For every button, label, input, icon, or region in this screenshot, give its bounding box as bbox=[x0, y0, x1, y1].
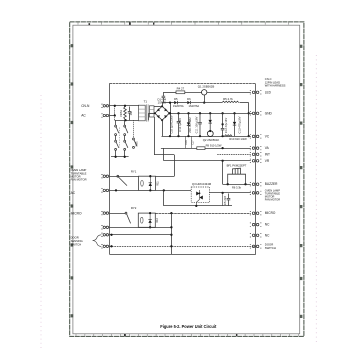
wire switch B to bus bbox=[124, 150, 126, 157]
transformer T1 core bbox=[146, 104, 148, 121]
wire C15 branch bbox=[170, 103, 172, 137]
connector pin CN-N pin 1 bbox=[101, 104, 108, 107]
node junction SE a bbox=[170, 226, 172, 228]
svg-text:C17: C17 bbox=[191, 140, 194, 145]
node junction AC bottom a bbox=[114, 114, 116, 116]
wire lamp feed drop bbox=[174, 155, 176, 176]
bridge rectifier D1-D4 1SR35 bbox=[155, 106, 169, 120]
wire AC line bottom stub bbox=[109, 115, 115, 117]
connector pin CN-C GND bbox=[250, 112, 261, 115]
wire LED row left bbox=[163, 92, 176, 94]
node junction GND g5 bbox=[221, 112, 223, 114]
node junction C15 top bbox=[169, 101, 171, 103]
wire VR rail bbox=[164, 160, 251, 162]
node junction VC v2 bbox=[177, 135, 179, 137]
wire C17 link bbox=[191, 136, 193, 148]
wire mech link dashed bbox=[119, 128, 121, 148]
node junction bus b bbox=[124, 156, 126, 158]
node bridge top vertex bbox=[161, 105, 163, 107]
svg-text:RY1: RY1 bbox=[131, 170, 137, 174]
svg-text:C5 223: C5 223 bbox=[223, 196, 227, 205]
transistor Q2 bbox=[207, 131, 213, 137]
brace door sensing bbox=[93, 235, 102, 247]
wire secondary top to bridge bbox=[154, 106, 162, 108]
wire GND rail bbox=[169, 113, 252, 115]
node junction AC return bbox=[124, 119, 126, 121]
node junction AC top b bbox=[124, 105, 126, 107]
capacitor C5 bbox=[227, 194, 231, 206]
node junction RY2 top bbox=[149, 212, 151, 214]
wire switch A to bus bbox=[115, 150, 117, 157]
node bridge left vertex bbox=[154, 112, 156, 114]
relay contact RY2 bbox=[125, 212, 131, 223]
node junction buzzer b bbox=[244, 183, 246, 185]
buzzer BF1 bbox=[228, 168, 246, 184]
wire micro row out bbox=[155, 213, 251, 215]
wire snubber row bbox=[164, 205, 232, 207]
node junction VA a bbox=[221, 147, 223, 149]
diode D9 bbox=[148, 213, 151, 227]
wire switch bottom bus bbox=[111, 156, 129, 158]
wire VA-VR link bbox=[163, 148, 165, 161]
node junction SE b bbox=[170, 234, 172, 236]
connector pin CN-C LED bbox=[250, 91, 261, 94]
node junction GND g2 bbox=[187, 112, 189, 114]
svg-text:SWITCH: SWITCH bbox=[265, 246, 276, 250]
connector pin CN-N pin 2 bbox=[101, 114, 108, 117]
svg-text:FAN MOTOR: FAN MOTOR bbox=[265, 197, 280, 201]
wire right connector spine CN-C bbox=[255, 84, 257, 254]
connector pin CN-C OVEN LAMP bbox=[250, 191, 261, 194]
node junction Q1 base bbox=[203, 101, 205, 103]
wire left connector spine CN bbox=[109, 84, 111, 254]
varistor VRS1 bbox=[124, 107, 127, 120]
wire C12 gnd link bbox=[222, 113, 224, 124]
zener diode D7 bbox=[209, 113, 212, 131]
relay RY2 coil box bbox=[138, 213, 155, 227]
wire AC neutral row bbox=[109, 190, 138, 192]
wire VC rail bbox=[162, 136, 251, 138]
node junction GND g1 bbox=[177, 112, 179, 114]
svg-text:SW1: SW1 bbox=[136, 141, 139, 147]
svg-text:C11 100μ16V: C11 100μ16V bbox=[194, 116, 198, 133]
triac Q3 bbox=[191, 187, 209, 202]
node junction VC v5 bbox=[221, 135, 223, 137]
svg-text:SENSING: SENSING bbox=[71, 239, 83, 243]
svg-text:NC: NC bbox=[265, 233, 270, 237]
capacitor C1 bbox=[128, 107, 132, 121]
svg-text:NC: NC bbox=[265, 223, 270, 227]
svg-text:FAN MOTOR: FAN MOTOR bbox=[71, 178, 87, 182]
svg-text:AC: AC bbox=[81, 114, 86, 118]
wire base row a bbox=[162, 102, 174, 104]
wire Q1 base drop bbox=[204, 95, 206, 103]
wire switch link B bbox=[124, 136, 126, 141]
node junction door1 bbox=[110, 234, 112, 236]
svg-text:R4 27: R4 27 bbox=[177, 87, 185, 91]
wire VA rail left bbox=[161, 148, 197, 150]
svg-text:MICRO: MICRO bbox=[71, 211, 82, 215]
switch door interlock A lower bbox=[115, 140, 119, 150]
wire switch drop A bbox=[115, 120, 117, 125]
svg-text:R6 3.3k: R6 3.3k bbox=[232, 185, 242, 189]
wire snubber drop bbox=[222, 193, 224, 206]
node junction AC top a bbox=[114, 105, 116, 107]
connector pin CN-C NC 2 bbox=[250, 234, 261, 237]
transformer T1 secondary bbox=[149, 106, 154, 117]
svg-text:AC: AC bbox=[71, 191, 76, 195]
svg-text:Q1 2SB562B: Q1 2SB562B bbox=[198, 84, 215, 88]
node junction GND g4 bbox=[209, 112, 211, 114]
node junction VC feed bbox=[248, 135, 250, 137]
wire buzzer rail bbox=[223, 184, 251, 186]
node junction RY2 bottom bbox=[149, 226, 151, 228]
switch door interlock B upper bbox=[124, 125, 128, 135]
svg-text:BUZZER: BUZZER bbox=[265, 182, 278, 186]
wire VA rail right bbox=[205, 148, 251, 150]
connector pin CN-C VA bbox=[250, 146, 261, 149]
wire door sense row 1 bbox=[109, 234, 171, 236]
connector pin CN-C VR bbox=[250, 159, 261, 162]
switch monitor switch C bbox=[133, 138, 137, 148]
node junction GND feed bbox=[248, 112, 250, 114]
node junction micro b bbox=[170, 212, 172, 214]
capacitor C11 bbox=[198, 113, 202, 136]
wire secondary left drop bbox=[148, 113, 150, 120]
wire lamp out row bbox=[209, 192, 251, 194]
node junction SE c bbox=[170, 245, 172, 247]
wire base row d bbox=[240, 102, 249, 104]
transformer T1 primary bbox=[138, 105, 145, 121]
svg-text:MICRO: MICRO bbox=[265, 211, 276, 215]
wire bridge bottom drop bbox=[162, 120, 164, 136]
wire LED row right bbox=[207, 92, 251, 94]
connector pin micro pin bbox=[101, 211, 108, 214]
node junction buzzer a bbox=[227, 183, 229, 185]
wire micro row in bbox=[109, 213, 125, 215]
wire base row c bbox=[191, 102, 222, 104]
node junction RY1 top bbox=[149, 175, 151, 177]
transistor Q1 bbox=[202, 90, 207, 95]
wire AC neutral row 2 bbox=[156, 190, 192, 192]
wire micro return row bbox=[109, 227, 171, 229]
connector pin micro return pin bbox=[101, 226, 108, 229]
connector pin door sensing pin 1 bbox=[101, 233, 108, 236]
svg-text:R10 910 1/2W: R10 910 1/2W bbox=[229, 137, 247, 141]
connector pin CN-C NC 1 bbox=[250, 223, 261, 226]
svg-text:1S2076A: 1S2076A bbox=[188, 104, 199, 108]
connector pin oven lamp pin bbox=[101, 175, 108, 178]
node junction GND g3 bbox=[199, 112, 201, 114]
svg-text:VRS1: VRS1 bbox=[119, 109, 123, 117]
svg-text:ZD1 HZ-6B2: ZD1 HZ-6B2 bbox=[188, 117, 192, 133]
svg-text:D6: D6 bbox=[187, 97, 191, 101]
svg-text:C13 470μ16V: C13 470μ16V bbox=[238, 116, 242, 133]
resistor R5 bbox=[222, 101, 239, 103]
zener diode ZD1 bbox=[187, 113, 190, 136]
capacitor C7 bbox=[162, 92, 166, 102]
svg-text:R5 4.7k: R5 4.7k bbox=[223, 97, 233, 101]
wire triac drop bbox=[163, 190, 165, 206]
relay contact RY1 bbox=[117, 175, 127, 185]
wire switch link A bbox=[115, 136, 117, 141]
resistor R9 bbox=[197, 147, 205, 150]
svg-text:C1: C1 bbox=[129, 111, 133, 115]
node junction neutral b bbox=[163, 189, 165, 191]
wire top rail bbox=[109, 83, 256, 85]
wire secondary mid to bridge left bbox=[149, 113, 155, 115]
wire lamp feed horiz bbox=[154, 154, 174, 156]
svg-text:Q2 2SD561K: Q2 2SD561K bbox=[203, 138, 220, 142]
svg-text:C12 47μ16V: C12 47μ16V bbox=[224, 118, 228, 134]
node junction D7 out bbox=[209, 130, 211, 132]
node junction VR a bbox=[221, 160, 223, 162]
wire bottom rail bbox=[109, 254, 256, 256]
node junction Q3 anode bbox=[199, 192, 201, 194]
svg-text:BF1 PKM22EPT: BF1 PKM22EPT bbox=[227, 164, 247, 168]
svg-text:LED: LED bbox=[265, 90, 272, 94]
connector pin CN-C VC bbox=[250, 135, 261, 138]
resistor R10 bbox=[225, 135, 233, 136]
wire switch drop C bbox=[133, 120, 135, 138]
connector pin door sensing pin 2 bbox=[101, 245, 108, 248]
node junction VC v1 bbox=[169, 135, 171, 137]
node junction RY1 bottom bbox=[149, 189, 151, 191]
connector pin CN-C MICRO bbox=[250, 212, 261, 215]
wire AC line top bbox=[109, 105, 139, 107]
connector pin CN-C BUZZER bbox=[250, 183, 261, 186]
node junction VC v3 bbox=[187, 135, 189, 137]
wire INT line bbox=[217, 154, 251, 156]
svg-text:R11: R11 bbox=[156, 181, 159, 186]
wire VR to buzzer drop bbox=[222, 161, 224, 184]
wire SE vertical bus bbox=[171, 213, 173, 254]
wire door sense row 2 bbox=[109, 246, 256, 248]
svg-text:D5: D5 bbox=[174, 97, 178, 101]
svg-text:C15 1μ AC250V: C15 1μ AC250V bbox=[171, 115, 174, 133]
svg-text:R9 910 1/2W: R9 910 1/2W bbox=[206, 143, 222, 147]
capacitor C10 bbox=[177, 113, 181, 136]
svg-text:WITH HARNESS: WITH HARNESS bbox=[265, 83, 286, 87]
diode D5 bbox=[174, 101, 177, 104]
svg-text:INT: INT bbox=[265, 152, 270, 156]
wire LED row mid bbox=[185, 92, 202, 94]
svg-text:C10 1μ50V: C10 1μ50V bbox=[178, 118, 182, 132]
svg-text:CN-N: CN-N bbox=[81, 104, 90, 108]
wire C16 link bbox=[185, 136, 187, 148]
svg-text:Q3 HRC2434M: Q3 HRC2434M bbox=[192, 182, 212, 186]
relay RY1 coil box bbox=[139, 176, 156, 190]
node junction lamp out bbox=[221, 192, 223, 194]
node junction VC v4 bbox=[199, 135, 201, 137]
wire RY1 row out bbox=[156, 176, 175, 178]
resistor R4 bbox=[176, 91, 185, 94]
wire switch drop B bbox=[124, 120, 126, 125]
connector pin CN-C DOOR SWITCH bbox=[250, 245, 261, 248]
wire base row b bbox=[178, 102, 188, 104]
zener diode ZD2 bbox=[233, 113, 236, 136]
svg-text:GND: GND bbox=[265, 111, 273, 115]
svg-text:Figure 5-2. Power Unit Circuit: Figure 5-2. Power Unit Circuit bbox=[160, 324, 216, 329]
svg-text:1S2076A: 1S2076A bbox=[173, 104, 184, 108]
svg-text:T1: T1 bbox=[144, 99, 148, 103]
node bridge bottom vertex bbox=[161, 119, 163, 121]
wire RY1 row in bbox=[109, 176, 138, 178]
node bridge right vertex bbox=[168, 112, 170, 114]
node junction GND g6 bbox=[233, 112, 235, 114]
svg-text:SWITCH: SWITCH bbox=[71, 243, 82, 247]
wire R5 feed drop bbox=[248, 103, 250, 137]
connector pin CN-C INT bbox=[250, 153, 261, 156]
svg-text:RY2: RY2 bbox=[131, 206, 137, 210]
svg-text:R12: R12 bbox=[156, 218, 159, 223]
svg-text:VR: VR bbox=[265, 159, 270, 163]
wire AC return line bbox=[115, 120, 139, 122]
diode D8 bbox=[149, 176, 152, 190]
wire secondary bottom drop bbox=[154, 117, 156, 155]
capacitor C12 bbox=[221, 124, 225, 136]
wire bridge top riser bbox=[162, 103, 164, 107]
switch door interlock A upper bbox=[115, 125, 119, 135]
connector pin AC pin bbox=[101, 189, 108, 192]
node junction Q3 gate bbox=[195, 205, 197, 207]
wire AC vertical link bbox=[114, 106, 116, 120]
svg-text:DOOR: DOOR bbox=[71, 236, 79, 240]
node junction C12 top bbox=[221, 123, 223, 125]
node junction bus a bbox=[114, 156, 116, 158]
svg-text:VC: VC bbox=[265, 134, 270, 138]
node junction door2 bbox=[110, 245, 112, 247]
switch door interlock B lower bbox=[124, 140, 128, 150]
diode D6 bbox=[187, 101, 190, 104]
node junction neutral a bbox=[115, 189, 117, 191]
node junction C15 gnd bbox=[169, 112, 171, 114]
